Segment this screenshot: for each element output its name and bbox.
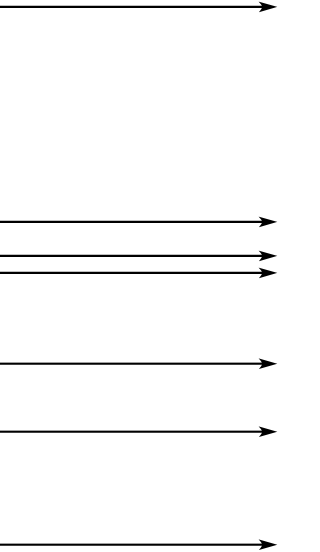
wire arrow 2 (0, 217, 277, 228)
wire arrow 7 (0, 539, 277, 550)
wire arrow 6 (0, 426, 277, 437)
wire arrow 1 (0, 2, 277, 13)
wire arrow 5 (0, 358, 277, 369)
wire arrow 3 (0, 251, 277, 262)
wire arrow 4 (0, 268, 277, 279)
